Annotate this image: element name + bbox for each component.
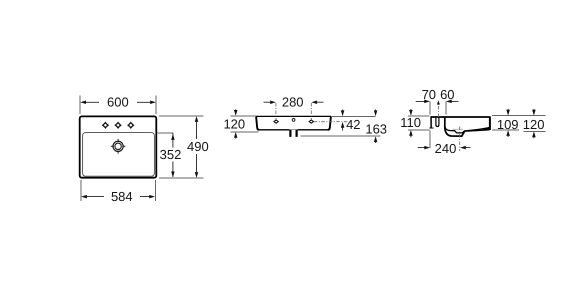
dim 240 extension line — [429, 131, 431, 149]
drain recess top line (side) — [453, 128, 464, 130]
dim 110 extension lines — [408, 116, 429, 130]
svg-text:120: 120 — [523, 117, 545, 132]
dim 109/120 top extension line — [492, 115, 546, 117]
dim 110 arrows — [409, 109, 413, 137]
svg-text:352: 352 — [160, 147, 182, 162]
dim 70/60 arrows — [416, 100, 459, 104]
tap hole right (front) — [309, 120, 313, 123]
svg-text:600: 600 — [107, 94, 129, 109]
svg-text:70: 70 — [422, 87, 436, 102]
svg-text:240: 240 — [435, 141, 457, 156]
dim 584 line + arrows — [81, 195, 155, 199]
rim (side) — [430, 116, 490, 118]
dim 600 extension lines — [80, 96, 156, 114]
svg-text:280: 280 — [282, 94, 304, 109]
dim 240 arrows — [418, 146, 471, 150]
bowl underside to front (side) — [465, 130, 490, 132]
dim 280 line + arrows — [264, 100, 324, 104]
basin inner bowl edge (plan) — [83, 133, 155, 177]
dim 120 arrows — [234, 109, 238, 138]
svg-text:42: 42 — [346, 117, 360, 132]
front edge (side) — [489, 117, 491, 130]
tap hole right (plan) — [127, 122, 134, 129]
hole centreline to 42 (dash-dot) — [314, 121, 349, 123]
dim 600 line + arrows — [80, 101, 156, 105]
back foot (side) — [429, 127, 433, 129]
dim 42/163 top extension line — [332, 115, 376, 117]
svg-text:120: 120 — [223, 117, 245, 132]
dim 163 bottom extension line — [301, 135, 381, 137]
dim 109 bottom extension line — [492, 129, 519, 131]
dim 352 extension + line + arrows — [158, 132, 173, 134]
drain recess top line (front) — [289, 129, 298, 131]
front bottom wedge (side) — [483, 127, 490, 130]
dim 42 arrows — [341, 110, 345, 131]
svg-text:490: 490 — [187, 139, 209, 154]
basin outer rim (plan) — [80, 116, 157, 177]
bowl outer profile (side) — [445, 118, 465, 137]
tap hole centre (front) — [292, 119, 295, 122]
basin body outline (front) — [256, 115, 331, 117]
bowl inner profile (side) — [445, 126, 489, 133]
drain stub walls (front) — [290, 130, 296, 137]
tap hole left (front) — [274, 120, 278, 123]
dim 163 arrows — [374, 110, 378, 143]
tap hole channel (side) — [436, 118, 439, 127]
dim 490 extension lines — [159, 116, 204, 178]
tap hole centreline (side, dash-dot) — [437, 106, 439, 126]
dim 109 arrows — [506, 109, 510, 137]
svg-text:110: 110 — [400, 115, 421, 130]
dim 490 line + arrows — [195, 116, 199, 178]
centre marker arrow (70/60 shared) — [437, 100, 440, 104]
dim 120 (front left) extension lines — [230, 116, 258, 132]
dim 584 extension lines — [81, 180, 156, 201]
back wall (side) — [430, 117, 432, 128]
dim 280 centrelines (dash-dot) — [276, 103, 311, 119]
dim 70/60 extension lines — [430, 101, 446, 114]
drain outlet (plan) — [111, 139, 126, 154]
dim 120 (side) bottom extension line — [523, 130, 545, 132]
tap hole centre (plan) — [115, 122, 122, 129]
svg-text:163: 163 — [365, 122, 387, 137]
svg-text:109: 109 — [497, 117, 519, 132]
drain centreline (side, dash-dot) — [459, 127, 461, 152]
dim 120 (side) arrows — [532, 109, 536, 138]
svg-text:584: 584 — [111, 189, 133, 204]
svg-text:60: 60 — [440, 87, 454, 102]
tap hole left (plan) — [102, 122, 109, 129]
